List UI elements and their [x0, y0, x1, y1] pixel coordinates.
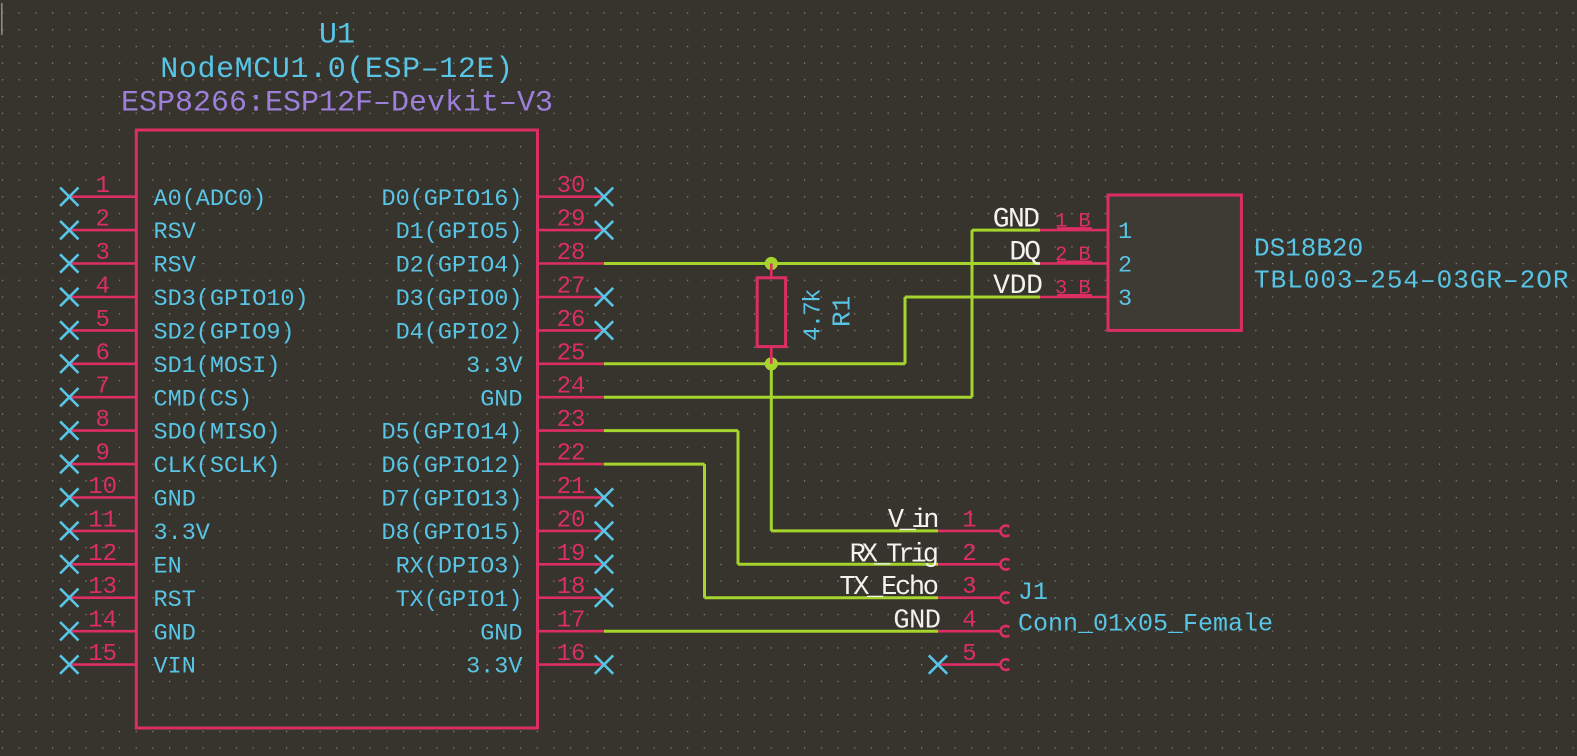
svg-text:GND: GND	[154, 620, 196, 647]
svg-text:5: 5	[962, 641, 976, 668]
svg-text:26: 26	[557, 307, 586, 334]
svg-text:D5(GPIO14): D5(GPIO14)	[381, 420, 522, 447]
svg-text:R1: R1	[828, 296, 858, 327]
svg-text:27: 27	[557, 273, 586, 300]
svg-text:1: 1	[962, 507, 976, 534]
svg-text:CMD(CS): CMD(CS)	[154, 386, 253, 413]
svg-text:GND: GND	[893, 606, 940, 636]
svg-text:30: 30	[557, 173, 586, 200]
svg-text:18: 18	[557, 574, 586, 601]
svg-text:GND: GND	[480, 620, 522, 647]
svg-text:J1: J1	[1018, 578, 1048, 607]
svg-text:4: 4	[95, 273, 109, 300]
svg-text:EN: EN	[154, 553, 182, 580]
svg-text:D8(GPIO15): D8(GPIO15)	[381, 520, 522, 547]
svg-text:RSV: RSV	[154, 219, 196, 246]
svg-text:A0(ADC0): A0(ADC0)	[154, 186, 267, 213]
svg-text:7: 7	[95, 374, 109, 401]
svg-text:29: 29	[557, 207, 586, 234]
svg-text:17: 17	[557, 608, 586, 635]
svg-text:2: 2	[95, 207, 109, 234]
svg-text:RX(DPIO3): RX(DPIO3)	[396, 553, 523, 580]
svg-text:23: 23	[557, 407, 586, 434]
svg-text:4: 4	[962, 608, 976, 635]
svg-text:1: 1	[95, 173, 109, 200]
svg-text:CLK(SCLK): CLK(SCLK)	[154, 453, 281, 480]
svg-text:VDD: VDD	[993, 271, 1043, 302]
svg-text:3: 3	[95, 240, 109, 267]
svg-text:SD1(MOSI): SD1(MOSI)	[154, 353, 281, 380]
svg-text:TX(GPIO1): TX(GPIO1)	[396, 587, 523, 614]
svg-text:SD3(GPIO10): SD3(GPIO10)	[154, 286, 309, 313]
svg-text:TX_Echo: TX_Echo	[839, 573, 937, 603]
svg-text:GND: GND	[154, 487, 196, 514]
svg-text:3: 3	[962, 574, 976, 601]
svg-text:3.3V: 3.3V	[154, 520, 210, 547]
svg-text:16: 16	[557, 641, 586, 668]
svg-text:6: 6	[95, 340, 109, 367]
svg-text:3_B: 3_B	[1055, 278, 1090, 301]
svg-text:4.7k: 4.7k	[801, 289, 828, 341]
svg-text:RX_Trig: RX_Trig	[850, 540, 937, 570]
svg-text:U1: U1	[319, 18, 355, 52]
svg-text:13: 13	[88, 574, 117, 601]
svg-text:19: 19	[557, 541, 586, 568]
svg-text:DS18B20: DS18B20	[1254, 233, 1363, 263]
svg-text:22: 22	[557, 441, 586, 468]
svg-text:15: 15	[88, 641, 117, 668]
svg-text:24: 24	[557, 374, 586, 401]
svg-text:5: 5	[95, 307, 109, 334]
svg-text:28: 28	[557, 240, 586, 267]
svg-text:3.3V: 3.3V	[466, 654, 522, 681]
svg-text:1: 1	[1118, 219, 1132, 246]
svg-text:ESP8266:ESP12F–Devkit–V3: ESP8266:ESP12F–Devkit–V3	[121, 86, 553, 120]
svg-text:RST: RST	[154, 587, 196, 614]
svg-text:D7(GPIO13): D7(GPIO13)	[381, 487, 522, 514]
svg-text:14: 14	[88, 608, 117, 635]
svg-text:10: 10	[88, 474, 117, 501]
svg-text:3: 3	[1118, 286, 1132, 313]
svg-text:2: 2	[1118, 253, 1132, 280]
svg-text:2_B: 2_B	[1055, 244, 1090, 267]
svg-text:RSV: RSV	[154, 253, 196, 280]
svg-text:Conn_01x05_Female: Conn_01x05_Female	[1018, 610, 1273, 639]
svg-text:VIN: VIN	[154, 654, 196, 681]
svg-text:D2(GPIO4): D2(GPIO4)	[396, 253, 523, 280]
svg-text:NodeMCU1.0(ESP–12E): NodeMCU1.0(ESP–12E)	[160, 53, 513, 87]
svg-text:TBL003–254–03GR–2OR: TBL003–254–03GR–2OR	[1254, 266, 1569, 296]
svg-text:D3(GPIO0): D3(GPIO0)	[396, 286, 523, 313]
svg-text:1_B: 1_B	[1055, 211, 1090, 234]
svg-text:3.3V: 3.3V	[466, 353, 522, 380]
svg-text:D6(GPIO12): D6(GPIO12)	[381, 453, 522, 480]
svg-text:20: 20	[557, 507, 586, 534]
svg-text:D1(GPIO5): D1(GPIO5)	[396, 219, 523, 246]
svg-text:25: 25	[557, 340, 586, 367]
svg-text:21: 21	[557, 474, 586, 501]
svg-text:11: 11	[88, 507, 117, 534]
svg-text:DQ: DQ	[1009, 238, 1040, 269]
svg-text:9: 9	[95, 441, 109, 468]
svg-text:V_in: V_in	[888, 506, 937, 536]
svg-text:SDO(MISO): SDO(MISO)	[154, 420, 281, 447]
svg-text:GND: GND	[993, 204, 1039, 235]
svg-text:D4(GPIO2): D4(GPIO2)	[396, 319, 523, 346]
svg-text:GND: GND	[480, 386, 522, 413]
svg-text:D0(GPIO16): D0(GPIO16)	[381, 186, 522, 213]
svg-text:8: 8	[95, 407, 109, 434]
svg-text:2: 2	[962, 541, 976, 568]
svg-text:12: 12	[88, 541, 117, 568]
svg-text:SD2(GPIO9): SD2(GPIO9)	[154, 319, 295, 346]
